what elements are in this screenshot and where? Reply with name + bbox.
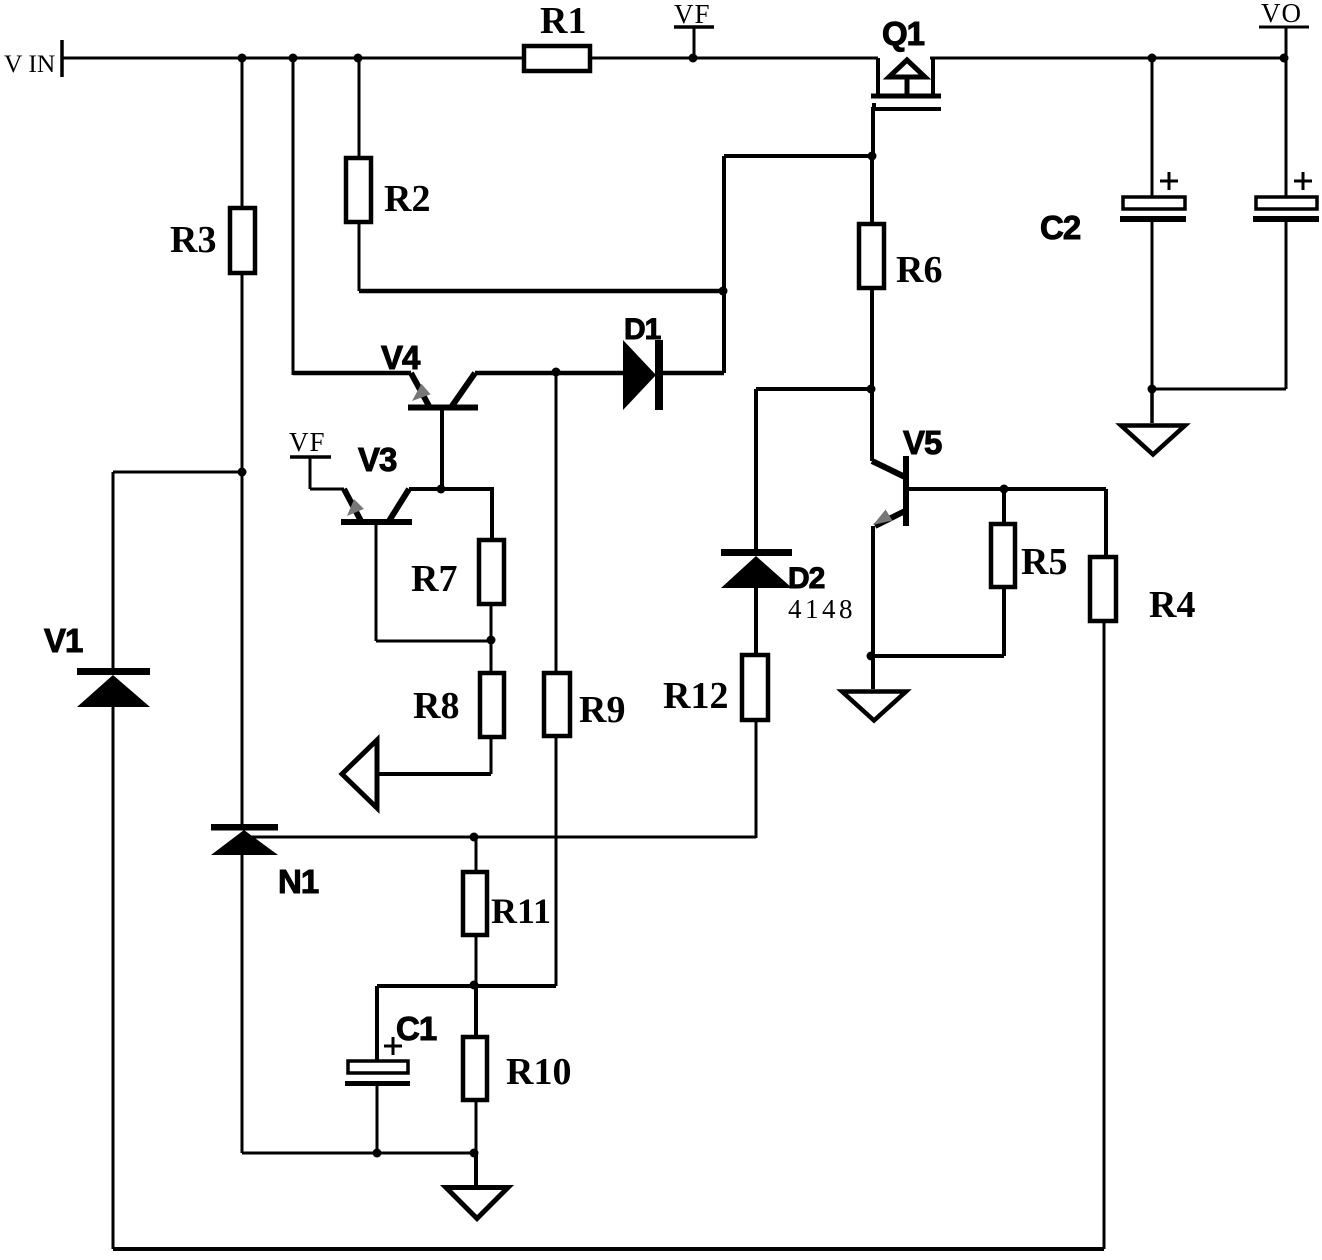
transistor Q1 source leg xyxy=(876,58,880,94)
junction R7-R8 xyxy=(487,636,496,645)
wire N1 top lead xyxy=(241,472,244,824)
wire C1 bottom lead xyxy=(376,1086,379,1153)
resistor R11 xyxy=(463,872,551,935)
transistor Q1 body-diode arrow xyxy=(889,60,925,94)
svg-text:V IN: V IN xyxy=(4,49,55,78)
wire V5 emitter lead xyxy=(871,526,875,656)
wire C2a top lead xyxy=(1151,58,1154,197)
wire N1 bottom lead xyxy=(241,855,244,1153)
transistor Q1 label xyxy=(882,15,925,52)
wire V1 bottom lead xyxy=(112,707,115,1249)
svg-text:R9: R9 xyxy=(579,689,625,731)
wire V3 base drop xyxy=(375,524,378,641)
wire V1 top lead xyxy=(112,472,115,669)
wire D1 cathode lead xyxy=(663,371,724,376)
svg-text:R10: R10 xyxy=(506,1051,571,1093)
transistor V5 emitter xyxy=(875,511,905,526)
wire V4 collector to D1 anode xyxy=(475,371,623,376)
svg-text:R3: R3 xyxy=(170,219,216,261)
svg-text:R12: R12 xyxy=(663,675,728,717)
wire R10 bottom lead xyxy=(475,1100,478,1153)
wire gate net left xyxy=(724,154,873,158)
ground (V5 emitter) xyxy=(842,656,906,721)
wire R3 top lead xyxy=(241,58,244,208)
transistor V3 collector xyxy=(389,489,409,521)
wire R8 bottom lead xyxy=(490,737,493,774)
wire R2 bottom lead xyxy=(358,222,361,291)
diode V1 xyxy=(77,668,150,707)
svg-text:V4: V4 xyxy=(381,339,421,376)
junction R3 tap xyxy=(238,54,247,63)
capacitor C1 xyxy=(345,1037,410,1086)
wire gate net down to R2 rail xyxy=(722,156,726,373)
wire V5 collector drop xyxy=(870,389,874,461)
transistor V3 emitter xyxy=(344,489,361,521)
wire V4 base drop xyxy=(440,410,444,489)
svg-text:R5: R5 xyxy=(1021,541,1067,583)
junction R2 tap xyxy=(354,54,363,63)
transistor V5 label xyxy=(903,424,942,461)
svg-text:C2: C2 xyxy=(1040,209,1081,246)
node VO label xyxy=(1259,0,1309,58)
junction V5 emitter / R5 / ground xyxy=(867,652,876,661)
wire D2 anode lead xyxy=(754,588,758,655)
svg-text:D2: D2 xyxy=(788,562,825,595)
capacitor C2 (first) xyxy=(1120,172,1186,222)
junction R6 bottom xyxy=(867,385,876,394)
VIN terminal bar xyxy=(60,40,64,77)
capacitor C2 (second) xyxy=(1253,172,1319,222)
svg-text:VF: VF xyxy=(289,427,326,457)
ground (main) xyxy=(446,1153,508,1219)
wire V4 emitter run xyxy=(293,371,411,376)
svg-text:C1: C1 xyxy=(396,1010,437,1047)
wire Q1 gate drop xyxy=(871,109,875,156)
wire R11 top lead xyxy=(475,837,478,872)
svg-text:V1: V1 xyxy=(44,622,83,659)
junction C1 bottom xyxy=(373,1149,382,1158)
svg-text:VO: VO xyxy=(1261,0,1302,28)
diode D1 label xyxy=(624,313,661,346)
ground (C2) xyxy=(1121,389,1185,455)
transistor V3 label xyxy=(358,441,397,478)
transistor Q1 drain leg xyxy=(931,58,935,94)
wire R11 bottom lead xyxy=(475,935,478,986)
diode D2 label xyxy=(788,562,825,595)
resistor R4 xyxy=(1090,557,1195,626)
transistor Q1 gate bar xyxy=(871,103,941,109)
diode V1 label xyxy=(44,622,83,659)
svg-text:R1: R1 xyxy=(540,0,586,42)
svg-text:N1: N1 xyxy=(278,863,319,900)
wire R6 top lead xyxy=(870,156,874,224)
wire C2b bottom lead xyxy=(1285,222,1288,389)
svg-text:Q1: Q1 xyxy=(882,15,925,52)
junction C2a tap xyxy=(1148,54,1157,63)
junction gate net xyxy=(868,152,877,161)
svg-text:R8: R8 xyxy=(413,685,459,727)
wire top rail left (VIN to Q1 source) xyxy=(62,57,878,60)
resistor R6 xyxy=(859,224,942,291)
wire V3 collector run xyxy=(409,487,494,491)
wire R3 bottom lead xyxy=(241,273,244,472)
wire R5 bottom lead xyxy=(1002,587,1006,656)
wire R2 top lead xyxy=(358,58,361,158)
wire C1 top lead xyxy=(375,986,379,1061)
wire C2b top lead xyxy=(1285,58,1288,197)
transistor Q1 body bar xyxy=(871,94,941,99)
wire R5 bottom run xyxy=(873,654,1004,658)
junction R11 / R10 / C1 xyxy=(470,981,479,990)
transistor V4 collector xyxy=(452,373,475,406)
wire R7 bottom lead xyxy=(490,604,493,641)
wire down to R7 xyxy=(490,489,494,540)
resistor R8 xyxy=(413,673,504,737)
wire R5 top lead xyxy=(1002,489,1006,524)
transistor V4 emitter arrow xyxy=(412,384,431,401)
wire C1 top run xyxy=(377,984,556,988)
svg-text:4148: 4148 xyxy=(788,594,856,624)
resistor R3 xyxy=(170,208,255,273)
transistor V4 label xyxy=(381,339,421,376)
diode D2 value 4148 xyxy=(788,594,856,624)
resistor R10 xyxy=(463,1037,571,1100)
svg-text:R4: R4 xyxy=(1149,584,1195,626)
wire V1 top link xyxy=(113,471,242,474)
wire V3 base to R8 top xyxy=(376,640,491,643)
capacitor C1 label xyxy=(396,1010,437,1047)
junction VF xyxy=(689,54,698,63)
wire V5 base run xyxy=(906,487,1106,491)
svg-text:R6: R6 xyxy=(896,249,942,291)
wire R6 bottom lead xyxy=(870,288,874,389)
junction R5 tap xyxy=(1000,485,1009,494)
junction R9 tap xyxy=(552,368,561,377)
transistor V5 base bar xyxy=(903,456,909,526)
wire D2 top lead xyxy=(754,389,758,549)
wire R8 bottom run xyxy=(376,772,491,776)
wire R10 top lead xyxy=(474,986,478,1037)
svg-text:R11: R11 xyxy=(491,891,551,931)
transistor V4 emitter xyxy=(411,373,429,406)
svg-text:V3: V3 xyxy=(358,441,397,478)
svg-text:VF: VF xyxy=(674,0,711,29)
resistor R2 xyxy=(346,158,430,222)
node VIN label xyxy=(4,49,55,78)
wire R8 top lead xyxy=(490,641,493,673)
wire R4 bottom lead (to bottom rail) xyxy=(1103,621,1106,1249)
wire R9 bottom lead xyxy=(555,736,558,986)
resistor R5 xyxy=(991,524,1067,587)
diode N1 label xyxy=(278,863,319,900)
junction R3 / V1 link xyxy=(238,468,247,477)
junction V4-emitter tap xyxy=(289,54,298,63)
arrow terminal (wiper) xyxy=(342,740,377,808)
wire R6-bottom to D2 branch xyxy=(756,387,872,391)
junction VO xyxy=(1280,54,1289,63)
diode D1 xyxy=(623,340,663,410)
junction R2 bottom rail xyxy=(719,287,728,296)
transistor V4 base bar xyxy=(408,405,478,411)
resistor R7 xyxy=(411,540,504,604)
node VF (top) xyxy=(674,0,714,58)
wire feedback rail (N1 to R12) xyxy=(242,836,756,839)
wire V4 emitter branch (from top rail) xyxy=(292,58,295,375)
diode D2 xyxy=(721,549,792,588)
transistor V3 emitter arrow xyxy=(347,499,364,516)
wire VF stub to V3 emitter xyxy=(310,457,344,489)
junction V4 base / V3 collector xyxy=(437,485,446,494)
wire bottom rail xyxy=(113,1247,1104,1251)
svg-text:R2: R2 xyxy=(384,178,430,220)
wire C2a bottom lead xyxy=(1151,222,1154,389)
wire C2 bottom link xyxy=(1152,388,1286,391)
junction R11 top xyxy=(470,833,479,842)
wire R2 bottom rail xyxy=(359,289,724,294)
junction R10 bottom xyxy=(470,1149,479,1158)
wire top rail right (Q1 drain to VO) xyxy=(930,57,1287,60)
wire R12 bottom lead xyxy=(755,720,758,838)
transistor V5 collector xyxy=(872,461,905,477)
diode N1 xyxy=(211,824,278,855)
capacitor C2 label xyxy=(1040,209,1081,246)
transistor V3 base bar xyxy=(341,519,412,525)
resistor R1 xyxy=(524,0,590,71)
transistor V5 emitter arrow xyxy=(873,510,892,526)
wire ground rail (C1/R10) xyxy=(242,1152,476,1155)
wire R4 top lead xyxy=(1104,489,1108,557)
wire R9 top lead xyxy=(555,373,558,673)
svg-text:R7: R7 xyxy=(411,558,457,600)
node VF (at V3) label xyxy=(289,427,331,457)
resistor R9 xyxy=(544,673,625,736)
junction C2 ground xyxy=(1148,385,1157,394)
svg-text:V5: V5 xyxy=(903,424,942,461)
resistor R12 xyxy=(663,655,768,720)
